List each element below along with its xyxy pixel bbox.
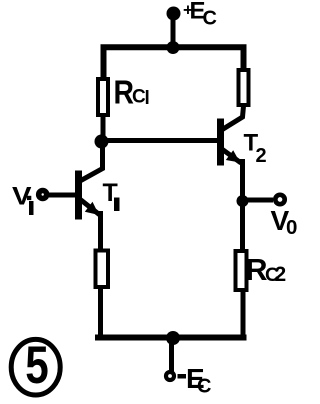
svg-text:5: 5 <box>25 336 49 395</box>
label -Ec <box>178 363 212 398</box>
wire: RC1 to node A <box>101 117 106 137</box>
svg-text:2: 2 <box>275 263 287 286</box>
wire: node A to T2 base <box>102 138 218 143</box>
label Vo <box>271 205 298 239</box>
label T1 <box>103 179 120 211</box>
svg-text:2: 2 <box>256 145 267 167</box>
wire: junction to RC2 <box>240 201 245 250</box>
junction: top rail / +Ec <box>167 41 180 54</box>
junction: T2 emitter / Vo / RC2 <box>237 195 249 207</box>
wire: bottom rail <box>98 335 244 341</box>
svg-text:C: C <box>197 376 211 398</box>
wire: Vi to T1 base <box>49 193 76 198</box>
label Vi <box>12 183 34 216</box>
label RC2 <box>246 252 287 287</box>
wire: +Ec stem <box>171 14 176 48</box>
resistor RC1 <box>98 79 108 115</box>
label RC1 <box>114 74 150 111</box>
figure number 5 <box>11 336 60 395</box>
wire: -Ec stem <box>169 338 174 372</box>
wire: RE1 to bottom rail <box>98 289 103 338</box>
svg-text:0: 0 <box>286 216 297 239</box>
label T2 <box>244 130 267 168</box>
junction: node A (T1 collector / T2 base) <box>95 135 109 149</box>
input terminal Vi <box>39 191 47 199</box>
transistor T1 <box>79 137 103 249</box>
wire: RC2 to bottom rail <box>241 292 246 338</box>
label +Ec <box>183 0 217 30</box>
wire: junction to Vo terminal <box>243 198 274 203</box>
resistor RC2 <box>236 251 247 290</box>
svg-text:C: C <box>203 8 217 30</box>
resistor RE1 (lower left, unlabeled) <box>96 251 109 288</box>
transistor T2 <box>221 106 244 201</box>
junction: bottom rail / -Ec <box>166 331 180 345</box>
svg-text:l: l <box>145 88 150 109</box>
output terminal Vo <box>275 195 284 204</box>
-Ec supply terminal <box>166 372 174 380</box>
resistor R (right top, unlabeled) <box>239 70 249 105</box>
+Ec supply terminal <box>167 7 181 21</box>
wire: top rail with left and right drops <box>104 47 244 78</box>
